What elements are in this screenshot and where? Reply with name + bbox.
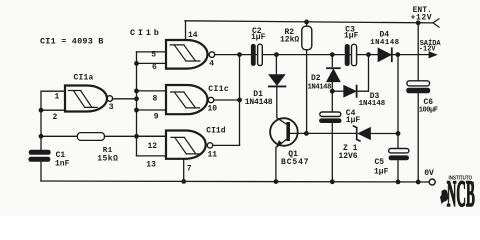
diode D3 [332,90,344,92]
wire CI1d input pin12 [137,135,167,137]
wire D1 cathode to Q1 collector [277,86,287,124]
svg-text:12kΩ: 12kΩ [280,36,299,45]
svg-text:CI1 = 4093 B: CI1 = 4093 B [40,37,104,47]
svg-text:8: 8 [153,94,158,103]
wire top +12V rail [185,21,433,23]
svg-text:7: 7 [187,164,192,173]
junction bus R1/pin12 [134,134,139,139]
wire output bus2 vertical [239,55,241,146]
wire pin7 of CI1d to ground rail [183,159,185,182]
svg-text:6: 6 [152,63,157,72]
wire CI1b input pin6 [137,62,167,64]
logo INSTITUTO NCB [440,174,475,215]
node SAIDA arrow terminal [429,51,438,58]
wire CI1c output to bus2 [214,99,240,101]
capacitor C3 [345,44,350,66]
svg-text:-12V: -12V [419,46,437,54]
svg-text:12V6: 12V6 [338,152,357,161]
junction pin7 ground [181,179,186,184]
svg-text:CI1b: CI1b [130,28,162,38]
junction bus pin6 [134,61,139,66]
svg-text:1µF: 1µF [344,31,359,40]
op-amp CI1b NAND gate body [166,40,207,69]
wire CI1a output pin3 to bus [113,98,137,100]
svg-text:1µF: 1µF [374,168,389,177]
wire C4 bottom to ground rail [331,123,333,182]
resistor R1 [77,133,104,141]
node 0V terminal [429,179,435,185]
junction bus pin8 [134,89,139,94]
svg-text:0V: 0V [424,169,434,178]
junction C5 ground [396,180,401,185]
wire Q1 base to node [290,132,357,134]
svg-text:CI1c: CI1c [208,85,229,94]
capacitor C2 [251,44,256,66]
wire CI1b input pin5 [137,51,167,53]
wire pin14 of CI1b to top rail [185,21,187,40]
junction row D2 [330,52,335,57]
junction base R2 [304,131,309,136]
junction D2 D3 [330,89,335,94]
svg-text:14: 14 [188,31,198,40]
output bubble CI1d pin11 [207,143,212,148]
junction emitter ground [274,179,279,184]
wire CI1c input pin9 [137,109,167,111]
svg-text:2: 2 [53,113,58,122]
svg-text:CI1a: CI1a [74,74,94,83]
svg-text:1nF: 1nF [55,159,70,168]
hysteresis glyph CI1d [171,137,199,154]
resistor R2 [306,22,308,26]
svg-text:1µF: 1µF [251,33,266,42]
junction C4 ground [330,179,335,184]
junction C6 ground [416,180,421,185]
diode D2 [331,55,333,67]
svg-text:5: 5 [151,51,156,60]
transistor Q1 [270,118,298,146]
capacitor C4 [331,91,333,112]
svg-text:1µF: 1µF [346,116,361,125]
svg-text:3: 3 [109,103,114,112]
svg-text:D2: D2 [311,74,321,83]
svg-text:9: 9 [154,112,159,121]
output bubble CI1a pin3 [107,96,113,102]
junction pin2 left vertical [39,108,44,113]
svg-text:12: 12 [148,142,158,151]
zener Z1 [354,126,360,141]
junction top rail / +12V rail down [416,20,421,25]
wire R2 bottom to base node [306,50,308,134]
svg-text:10: 10 [208,104,218,113]
hysteresis glyph CI1a [69,91,98,108]
wire Q1 emitter [277,139,287,147]
output bubble CI1b pin4 [209,52,215,58]
op-amp CI1c NAND gate body [166,85,208,114]
svg-text:11: 11 [208,151,218,160]
svg-text:1N4148: 1N4148 [359,100,386,108]
op-amp CI1a NAND gate body [65,86,107,112]
wire main row CI1b output to SAIDA [215,54,429,56]
wire CI1c input pin8 [137,90,167,92]
wire R1 row [41,135,166,137]
wire CI1a input pin2 [41,109,65,111]
junction Z1 right rail [396,131,401,136]
svg-text:C5: C5 [375,158,385,167]
svg-text:15kΩ: 15kΩ [97,155,118,164]
svg-text:CI1d: CI1d [206,126,225,135]
hysteresis glyph CI1c [171,92,200,108]
svg-text:NCB: NCB [447,174,475,215]
output bubble CI1c pin10 [208,97,213,102]
junction bus CI1a output [134,96,139,101]
svg-text:1N4148: 1N4148 [370,39,399,47]
svg-text:4: 4 [209,59,214,68]
svg-text:1: 1 [55,93,60,102]
svg-text:100µF: 100µF [419,106,438,114]
junction bus2 CI1c output [237,98,242,103]
svg-text:13: 13 [146,161,156,170]
junction row D1 [274,52,279,57]
junction bus2 top [237,52,242,57]
svg-text:1N4148: 1N4148 [308,84,332,92]
wire C1 bottom to ground rail [40,162,42,182]
svg-text:BC547: BC547 [281,158,310,167]
wire input bus vertical [136,52,138,156]
junction top rail / R2 [304,20,309,25]
node ENT +12V terminal [433,19,439,27]
diode D1 [275,55,277,75]
wire right rail D4 to C5 [397,55,399,149]
hysteresis glyph CI1b [170,45,200,61]
capacitor C5 [389,149,409,153]
junction R1 left vertical [39,134,44,139]
junction row D3 up [366,52,371,57]
capacitor C6 [407,81,430,86]
wire ground rail 0V [41,181,429,182]
op-amp CI1d NAND gate body [166,131,206,159]
wire CI1d output to bus2 [213,144,240,146]
junction bus pin9 [134,108,139,113]
wire +12V rail down to C6 [417,23,419,81]
wire CI1d input pin13 [137,155,167,157]
svg-text:+12V: +12V [411,13,433,22]
wire CI1a input pin1 [41,91,65,150]
capacitor C1 [28,150,50,162]
svg-text:1N4148: 1N4148 [245,98,273,107]
junction row D4 out [395,52,400,57]
diode D4 [378,48,391,61]
